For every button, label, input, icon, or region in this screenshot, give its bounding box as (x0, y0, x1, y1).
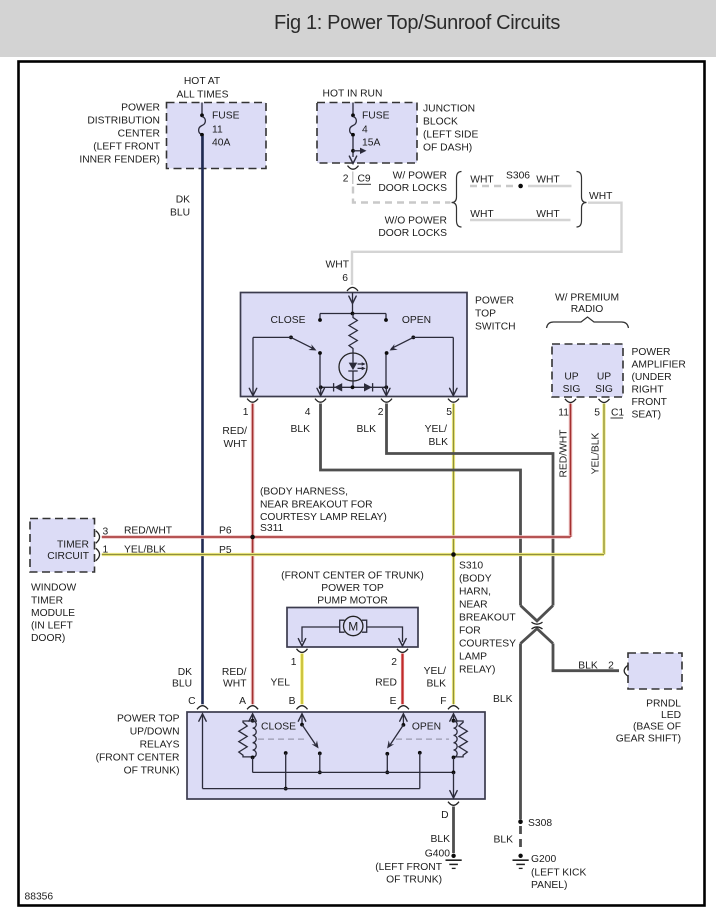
svg-text:RED/WHT: RED/WHT (124, 526, 173, 537)
svg-text:2: 2 (391, 657, 397, 668)
svg-text:88356: 88356 (25, 892, 54, 903)
label RED/WHT at relay pin A (222, 667, 247, 690)
window timer module label (31, 583, 76, 645)
label RED/WHT P6 (124, 526, 232, 537)
svg-text:RED/: RED/ (222, 426, 247, 437)
svg-text:(LEFT FRONT: (LEFT FRONT (375, 862, 442, 873)
svg-text:G200: G200 (531, 854, 556, 865)
svg-text:NEAR BREAKOUT FOR: NEAR BREAKOUT FOR (260, 500, 373, 511)
relay coil K1 (CLOSE) (239, 721, 256, 773)
diode D2 (points right) (364, 383, 373, 391)
svg-text:P5: P5 (219, 545, 232, 556)
svg-text:RIGHT: RIGHT (632, 385, 665, 396)
svg-text:TIMER: TIMER (31, 596, 63, 607)
timer pin numbers 3 1 (103, 527, 109, 556)
power top switch box (241, 293, 468, 397)
switch pin numbers 1 4 2 5 (243, 407, 453, 418)
label W/O POWER DOOR LOCKS (378, 216, 447, 240)
wire BLK switch pin2 to crossover (387, 404, 554, 606)
svg-text:DISTRIBUTION: DISTRIBUTION (87, 116, 160, 127)
svg-text:(UNDER: (UNDER (632, 372, 672, 383)
junction block label (423, 104, 478, 154)
svg-text:2: 2 (378, 407, 384, 418)
connector arcs at pump pins 1 2 (297, 649, 409, 653)
svg-text:NEAR: NEAR (459, 600, 488, 611)
connector arc at PRNDL LED (624, 665, 628, 677)
power distribution center box (fuse 11) (167, 103, 267, 169)
svg-text:SEAT): SEAT) (632, 410, 662, 421)
label BLK 2 at PRNDL (578, 661, 614, 672)
svg-text:BREAKOUT: BREAKOUT (459, 613, 516, 624)
pin 6 entry wire and arrow (349, 293, 356, 314)
relay pin A entry arrow (249, 714, 256, 723)
svg-text:INNER FENDER): INNER FENDER) (79, 155, 160, 166)
right option brace (577, 172, 587, 228)
svg-text:WHT: WHT (223, 679, 247, 690)
svg-text:C: C (188, 696, 196, 707)
svg-text:SWITCH: SWITCH (475, 322, 516, 333)
CLOSE linkage dashed (258, 738, 308, 740)
svg-text:WHT: WHT (224, 439, 248, 450)
wire BLK dashed S308 to G200 (519, 826, 522, 852)
relay coil K2 (OPEN) (452, 721, 468, 773)
label DK BLU upper (170, 195, 190, 219)
label WHT 6 at switch (326, 260, 350, 285)
svg-text:W/ POWER: W/ POWER (393, 171, 447, 182)
svg-text:D: D (441, 810, 448, 821)
svg-text:2: 2 (608, 661, 614, 672)
fuse 4 value label (362, 111, 390, 149)
row2 WHT labels (470, 209, 560, 220)
BLK crossover X (521, 606, 554, 644)
wire YEL/BLK timer pin1 to amplifier (102, 553, 604, 556)
splice S308 (518, 820, 523, 825)
pin 2 C9 labels (343, 172, 371, 185)
pump pin numbers 1 2 (291, 657, 398, 668)
svg-text:POWER TOP: POWER TOP (321, 583, 384, 594)
svg-text:B: B (289, 696, 296, 707)
svg-text:SIG: SIG (595, 384, 613, 395)
svg-text:S308: S308 (528, 818, 552, 829)
svg-text:DOOR): DOOR) (31, 633, 65, 644)
svg-text:BLK: BLK (493, 694, 513, 705)
svg-text:(FRONT CENTER OF TRUNK): (FRONT CENTER OF TRUNK) (281, 571, 424, 582)
label DK BLU lower (172, 667, 192, 690)
premium radio overbrace (547, 317, 629, 328)
CLOSE contact arm (253, 336, 317, 351)
svg-text:E: E (390, 696, 397, 707)
svg-text:A: A (239, 696, 246, 707)
svg-text:BLK: BLK (357, 424, 377, 435)
svg-text:W/O POWER: W/O POWER (385, 216, 447, 227)
wire BLK relay pin D to G400 (452, 807, 455, 854)
svg-text:S306: S306 (506, 171, 530, 182)
svg-text:HARN,: HARN, (459, 587, 491, 598)
amp pin numbers 11 5 C1 (558, 408, 624, 419)
svg-text:BLU: BLU (170, 208, 190, 219)
fuse 11 value label (212, 111, 240, 149)
svg-text:OPEN: OPEN (402, 315, 431, 326)
wire WHT dashed from C9 to option brace (353, 187, 451, 203)
svg-text:COURTESY: COURTESY (459, 639, 516, 650)
relay pin letters C A B E F (188, 696, 446, 707)
svg-text:FRONT: FRONT (632, 397, 668, 408)
svg-text:BLK: BLK (431, 834, 451, 845)
svg-text:RED/WHT: RED/WHT (559, 429, 570, 478)
svg-text:UP: UP (564, 372, 578, 383)
wire RED pump pin2 to relay pin E (401, 654, 404, 705)
svg-text:WHT: WHT (470, 175, 494, 186)
svg-text:UP: UP (597, 372, 611, 383)
svg-text:TOP: TOP (475, 309, 496, 320)
UP SIG pin labels (563, 372, 613, 396)
svg-text:BLK: BLK (578, 661, 598, 672)
wire DK BLU from fuse 11 to relay pin C (201, 136, 204, 704)
OPEN linkage dashed (396, 738, 449, 740)
svg-text:HOT IN RUN: HOT IN RUN (323, 89, 383, 100)
wire BLK crossover to PRNDL LED (553, 644, 619, 671)
svg-text:OPEN: OPEN (412, 722, 441, 733)
svg-text:40A: 40A (212, 138, 230, 149)
svg-text:4: 4 (305, 407, 311, 418)
power amplifier label (632, 347, 686, 421)
label W/ POWER DOOR LOCKS (378, 171, 447, 195)
svg-text:RELAY): RELAY) (459, 665, 495, 676)
svg-text:WHT: WHT (536, 175, 560, 186)
switch diode bus (319, 385, 388, 389)
svg-text:SIG: SIG (563, 384, 581, 395)
CLOSE side vertical to pin 1 (249, 337, 256, 395)
svg-text:OF DASH): OF DASH) (423, 143, 472, 154)
svg-text:LAMP: LAMP (459, 652, 487, 663)
svg-text:YEL/: YEL/ (425, 424, 447, 435)
TIMER CIRCUIT label (47, 540, 89, 563)
svg-text:5: 5 (446, 407, 452, 418)
switch pin2 internal vertical (383, 351, 390, 396)
svg-text:FOR: FOR (459, 626, 481, 637)
label YEL/BLK P5 (124, 545, 232, 557)
svg-text:YEL: YEL (271, 678, 291, 689)
svg-text:1: 1 (243, 407, 249, 418)
svg-text:6: 6 (342, 273, 348, 284)
svg-text:YEL/BLK: YEL/BLK (591, 432, 602, 474)
svg-text:GEAR SHIFT): GEAR SHIFT) (616, 734, 681, 745)
connector arcs at timer pins 3 1 (96, 531, 100, 561)
label HOT AT ALL TIMES (176, 76, 228, 101)
wire color labels under switch (222, 424, 448, 450)
svg-text:(LEFT KICK: (LEFT KICK (531, 868, 586, 879)
PRNDL LED label (616, 699, 681, 745)
svg-text:5: 5 (594, 408, 600, 419)
wire WHT row1 solid segment (528, 185, 572, 187)
svg-text:RED/: RED/ (222, 667, 247, 678)
label S310 (BODY HARN NEAR BREAKOUT FOR COURTESY LAMP RELAY) (459, 561, 516, 676)
svg-text:RED: RED (375, 678, 397, 689)
relay lower bus from pin C (203, 788, 420, 790)
svg-text:BLK: BLK (427, 679, 447, 690)
wire BLK crossover to S308 (519, 644, 522, 820)
CLOSE relay contacts (284, 751, 322, 790)
svg-text:HOT AT: HOT AT (184, 76, 221, 87)
power top up/down relays box (187, 712, 485, 799)
svg-text:POWER TOP: POWER TOP (117, 714, 180, 725)
svg-text:POWER: POWER (121, 103, 160, 114)
svg-text:F: F (440, 696, 446, 707)
svg-text:2: 2 (343, 174, 349, 185)
wire YEL pump pin1 to relay pin B (300, 654, 303, 705)
fuse F11 symbol (199, 103, 206, 169)
connector arc at switch pin 6 (347, 287, 358, 291)
wire YEL/BLK amp pin 5 vertical (602, 404, 605, 555)
svg-text:RELAYS: RELAYS (140, 740, 180, 751)
svg-text:FUSE: FUSE (362, 111, 390, 122)
svg-text:UP/DOWN: UP/DOWN (130, 727, 180, 738)
svg-text:POWER: POWER (475, 296, 514, 307)
svg-text:DOOR LOCKS: DOOR LOCKS (378, 228, 447, 239)
svg-text:LED: LED (661, 710, 681, 721)
splice S311 (250, 535, 255, 540)
svg-text:(BASE OF: (BASE OF (633, 722, 681, 733)
svg-text:WHT: WHT (470, 209, 494, 220)
svg-text:S310: S310 (459, 561, 483, 572)
svg-text:C9: C9 (358, 174, 371, 185)
svg-text:PUMP MOTOR: PUMP MOTOR (317, 596, 388, 607)
resistor in switch (349, 314, 357, 353)
label G200 (LEFT KICK PANEL) (531, 854, 586, 891)
svg-text:M: M (348, 619, 358, 633)
ground G200 (513, 854, 529, 869)
relay pin F entry arrow (450, 714, 457, 723)
svg-text:WHT: WHT (589, 191, 613, 202)
svg-text:OF TRUNK): OF TRUNK) (124, 766, 180, 777)
left option brace (452, 172, 462, 228)
label YEL/ BLK at relay pin F (424, 666, 446, 690)
svg-text:OF TRUNK): OF TRUNK) (386, 875, 442, 886)
svg-text:TIMER: TIMER (57, 540, 89, 551)
svg-text:(BODY: (BODY (459, 574, 492, 585)
svg-text:YEL/: YEL/ (424, 666, 446, 677)
svg-text:DOOR LOCKS: DOOR LOCKS (378, 183, 447, 194)
connector arcs at amp pins 11 and 5 (565, 399, 610, 403)
fuse F4 symbol (350, 103, 357, 158)
svg-text:MODULE: MODULE (31, 608, 75, 619)
svg-text:BLU: BLU (172, 679, 192, 690)
OPEN side vertical to pin 5 (450, 337, 457, 395)
svg-text:PANEL): PANEL) (531, 880, 567, 891)
power distribution center label (79, 103, 160, 166)
motor M1 symbol (340, 616, 367, 635)
wire YEL/BLK switch pin5 to relay pin F (452, 404, 455, 705)
row1 WHT labels (470, 175, 560, 186)
switch top bar (318, 312, 388, 322)
power top pump motor box (287, 608, 418, 648)
PRNDL LED box (628, 653, 682, 689)
wire RED/WHT timer pin3 to amplifier (102, 535, 571, 539)
svg-text:S311: S311 (260, 523, 284, 534)
svg-text:11: 11 (212, 125, 223, 136)
svg-text:CIRCUIT: CIRCUIT (47, 551, 89, 562)
svg-text:CENTER: CENTER (118, 129, 160, 140)
svg-text:11: 11 (558, 408, 569, 419)
svg-text:ALL TIMES: ALL TIMES (176, 90, 228, 101)
wire WHT row2 solid (470, 219, 571, 221)
svg-text:BLK: BLK (494, 835, 514, 846)
switch pin4 internal vertical (317, 351, 324, 396)
junction block box (fuse 4) (317, 103, 417, 164)
svg-text:CLOSE: CLOSE (271, 315, 306, 326)
svg-text:POWER: POWER (632, 347, 671, 358)
OPEN relay contacts (385, 751, 421, 789)
svg-text:G400: G400 (425, 849, 450, 860)
timer circuit box (30, 519, 95, 573)
svg-text:C1: C1 (611, 408, 624, 419)
svg-text:JUNCTION: JUNCTION (423, 104, 475, 115)
svg-text:COURTESY LAMP RELAY): COURTESY LAMP RELAY) (260, 512, 387, 523)
svg-text:BLK: BLK (291, 424, 311, 435)
svg-text:(LEFT SIDE: (LEFT SIDE (423, 130, 478, 141)
power top switch label (475, 296, 516, 333)
svg-text:1: 1 (291, 657, 297, 668)
svg-text:BLOCK: BLOCK (423, 117, 458, 128)
svg-text:DK: DK (176, 195, 190, 206)
splice S310 (451, 552, 456, 557)
arrow out of junction block bottom (349, 156, 356, 163)
label (BODY HARNESS NEAR BREAKOUT FOR COURTESY LAMP RELAY) S311 (260, 487, 387, 535)
power amplifier box (552, 344, 623, 397)
wire RED/WHT switch pin1 to relay pin A (251, 404, 255, 705)
svg-text:4: 4 (362, 125, 368, 136)
svg-text:(LEFT FRONT: (LEFT FRONT (93, 142, 160, 153)
svg-text:DK: DK (178, 667, 192, 678)
wire WHT from brace to switch pin 6 (352, 203, 622, 285)
svg-text:YEL/BLK: YEL/BLK (124, 545, 166, 556)
svg-text:W/ PREMIUM: W/ PREMIUM (555, 293, 619, 304)
branch arrow inside junction block (351, 148, 366, 154)
label (FRONT CENTER OF TRUNK) POWER TOP PUMP MOTOR (281, 571, 424, 607)
svg-text:(IN LEFT: (IN LEFT (31, 621, 73, 632)
pump motor internal wires with arrows (298, 627, 406, 646)
connector arcs at switch pins 1 4 2 5 (247, 399, 459, 403)
ground G400 (446, 854, 462, 869)
wire RED/WHT amp pin 11 vertical (569, 404, 573, 538)
svg-text:WHT: WHT (326, 260, 350, 271)
connector arc at relay pin D (448, 802, 459, 806)
svg-text:P6: P6 (219, 526, 232, 537)
label W/ PREMIUM RADIO (555, 293, 619, 316)
svg-text:CLOSE: CLOSE (261, 722, 296, 733)
connector C9 arc (348, 166, 359, 170)
svg-text:(BODY HARNESS,: (BODY HARNESS, (260, 487, 348, 498)
splice S306 (518, 184, 523, 189)
svg-text:BLK: BLK (429, 437, 449, 448)
svg-text:(FRONT CENTER: (FRONT CENTER (96, 753, 180, 764)
relay upper bus (253, 771, 456, 775)
svg-text:RADIO: RADIO (571, 304, 604, 315)
relay pin D exit wire and arrow (450, 772, 457, 798)
diode D1 (points left) (334, 383, 343, 391)
relays label (96, 714, 180, 777)
svg-text:AMPLIFIER: AMPLIFIER (632, 360, 686, 371)
relay pin E entry arrow and switch arm (387, 714, 407, 749)
svg-text:WINDOW: WINDOW (31, 583, 76, 594)
svg-text:FUSE: FUSE (212, 111, 240, 122)
LED U1 in switch (339, 352, 367, 387)
svg-text:WHT: WHT (536, 209, 560, 220)
OPEN contact arm (390, 336, 454, 351)
svg-text:PRNDL: PRNDL (646, 699, 681, 710)
relay pin C entry arrow and vertical (199, 714, 206, 789)
connector arcs at relay pins C A B E F (197, 706, 459, 710)
wire BLK switch pin4 to crossover (321, 404, 521, 606)
header bar (0, 0, 716, 57)
wire WHT row1 dashed segment (470, 185, 513, 187)
relay pin B entry arrow and switch arm (298, 714, 318, 749)
svg-text:Fig 1: Power Top/Sunroof Circu: Fig 1: Power Top/Sunroof Circuits (274, 12, 560, 34)
label (LEFT FRONT OF TRUNK) (375, 862, 442, 886)
svg-text:15A: 15A (362, 138, 380, 149)
